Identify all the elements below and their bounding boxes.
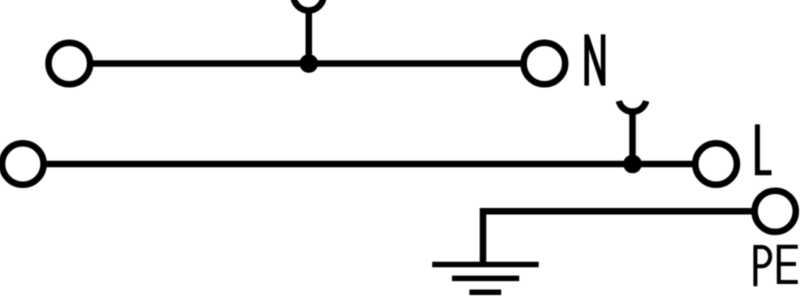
wire: PE conductor horizontal and down to earth (483, 211, 752, 264)
node junction on L bus (623, 155, 642, 174)
terminal circle L left, clipped at left edge (2, 143, 44, 185)
node junction on N bus (300, 54, 319, 73)
wire: stem from top socket to N bus junction (306, 8, 313, 64)
disconnect socket symbol middle (L branch) (619, 101, 646, 112)
wire: N bus horizontal (93, 60, 521, 67)
label N (587, 34, 603, 85)
terminal circle PE (755, 191, 796, 232)
label PE (755, 247, 797, 286)
wire: L bus horizontal (45, 161, 693, 168)
terminal circle N left (49, 43, 91, 85)
disconnect socket symbol top (N branch), clipped at top edge (294, 0, 324, 11)
wire: stem from middle socket to L bus junction (629, 109, 636, 164)
label L (757, 124, 771, 172)
terminal circle L right (695, 143, 737, 185)
earth ground symbol (432, 265, 539, 293)
terminal circle N right (524, 43, 566, 85)
